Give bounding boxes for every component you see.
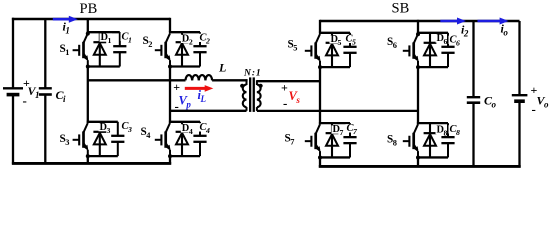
label Vp minus bbox=[175, 99, 179, 114]
capacitor C2 bbox=[193, 32, 210, 66]
wire PB top rail bbox=[12, 18, 170, 21]
wire cell S2 bottom bar bbox=[170, 65, 200, 67]
transistor S5 bbox=[288, 34, 321, 67]
node S8 emitter junction bbox=[416, 155, 420, 159]
wire S4 emitter to rail bbox=[169, 155, 171, 164]
label Vs plus bbox=[281, 81, 288, 95]
wire cell S1 top bar bbox=[87, 31, 120, 33]
wire cell S8 top bar bbox=[417, 122, 448, 124]
label SB bbox=[392, 0, 410, 16]
wire secondary return bbox=[257, 110, 418, 112]
label PB bbox=[80, 1, 98, 17]
wire cell S1 bottom bar bbox=[88, 65, 120, 67]
wire cell S7 bottom bar bbox=[320, 156, 350, 158]
wire Co top bbox=[472, 21, 474, 97]
label N:1 bbox=[243, 68, 262, 79]
wire Vo bottom bbox=[518, 101, 520, 167]
wire S2 collector stub bbox=[169, 18, 171, 32]
current arrow i2 bbox=[440, 18, 470, 39]
wire S3 emitter to rail bbox=[87, 155, 89, 163]
transistor S6 bbox=[387, 34, 419, 67]
svg-text:L: L bbox=[218, 61, 226, 75]
wire cell S8 bottom bar bbox=[418, 156, 448, 158]
diode D2 bbox=[176, 32, 194, 66]
capacitor C4 bbox=[193, 122, 210, 156]
wire cell S5 top bar bbox=[319, 32, 350, 34]
transformer primary winding bbox=[243, 79, 247, 111]
transformer core bbox=[249, 77, 255, 112]
transformer secondary dot bbox=[259, 84, 263, 88]
wire inductor to transformer bbox=[212, 79, 248, 81]
wire Co bottom bbox=[472, 103, 474, 167]
capacitor C8 bbox=[441, 123, 460, 157]
wire Ci bottom bbox=[44, 95, 46, 164]
wire primary phase A bbox=[88, 79, 186, 81]
svg-text:-: - bbox=[532, 102, 536, 117]
capacitor Ci bbox=[39, 88, 66, 104]
diode D1 bbox=[93, 32, 112, 66]
transistor S8 bbox=[387, 124, 419, 157]
diode D3 bbox=[93, 122, 111, 156]
wire SB top rail bbox=[320, 20, 520, 23]
wire Vo top bbox=[518, 21, 520, 95]
svg-text:N:1: N:1 bbox=[243, 68, 262, 79]
wire S5 collector stub bbox=[319, 20, 321, 33]
transistor S1 bbox=[60, 33, 89, 66]
label iL bbox=[198, 88, 207, 104]
diode D7 bbox=[326, 123, 344, 157]
wire S7 emitter to rail bbox=[319, 157, 321, 168]
wire SB leg B bbox=[417, 66, 419, 124]
capacitor C1 bbox=[113, 32, 132, 67]
diode D5 bbox=[326, 33, 342, 67]
transistor S7 bbox=[285, 124, 321, 157]
transistor S2 bbox=[143, 33, 171, 66]
transistor S3 bbox=[60, 123, 89, 156]
svg-text:+: + bbox=[281, 81, 288, 95]
wire cell S4 bottom bar bbox=[170, 155, 200, 157]
label Vs minus bbox=[283, 96, 287, 111]
capacitor C6 bbox=[441, 33, 460, 67]
label Vs bbox=[289, 89, 301, 105]
wire cell S3 bottom bar bbox=[88, 155, 118, 157]
node S4 emitter junction bbox=[168, 154, 172, 158]
capacitor Co bbox=[467, 94, 497, 110]
node S1 collector junction bbox=[86, 32, 90, 36]
wire cell S7 top bar bbox=[319, 122, 350, 124]
svg-text:-: - bbox=[283, 96, 287, 111]
wire cell S6 top bar bbox=[417, 32, 448, 34]
wire left source top bbox=[12, 18, 14, 88]
wire PB leg B bbox=[169, 65, 171, 123]
wire cell S3 top bar bbox=[87, 121, 118, 123]
inductor L bbox=[186, 61, 227, 81]
node S7 emitter junction bbox=[318, 155, 322, 159]
wire S1 collector stub bbox=[87, 19, 89, 34]
voltage source V1 bbox=[3, 76, 40, 108]
label Vp plus bbox=[173, 80, 180, 94]
voltage source Vo bbox=[512, 83, 549, 117]
current arrow iL bbox=[185, 85, 214, 92]
capacitor C3 bbox=[111, 121, 132, 156]
svg-text:+: + bbox=[173, 80, 180, 94]
transformer primary dot bbox=[240, 84, 244, 88]
wire left source bottom bbox=[12, 95, 14, 165]
node S5 emitter junction bbox=[318, 65, 322, 69]
wire cell S6 bottom bar bbox=[418, 66, 448, 68]
transistor S4 bbox=[141, 123, 171, 156]
wire primary return bbox=[170, 110, 247, 112]
wire Ci top bbox=[44, 19, 46, 88]
diode D8 bbox=[424, 123, 448, 157]
diode D6 bbox=[424, 33, 448, 67]
capacitor C7 bbox=[343, 123, 358, 157]
wire cell S4 top bar bbox=[169, 121, 200, 123]
current arrow io bbox=[478, 18, 509, 38]
diode D4 bbox=[176, 122, 194, 156]
wire cell S2 top bar bbox=[169, 31, 200, 33]
node S1 emitter junction bbox=[86, 65, 90, 69]
transformer secondary winding bbox=[257, 80, 261, 111]
node S3 emitter junction bbox=[86, 154, 90, 158]
wire PB leg A bbox=[87, 65, 89, 123]
current arrow i1 bbox=[53, 16, 78, 36]
wire S8 emitter to rail bbox=[417, 157, 419, 167]
label Vp bbox=[179, 94, 192, 110]
node S6 emitter junction bbox=[416, 65, 420, 69]
wire SB bottom rail bbox=[319, 165, 521, 168]
svg-text:PB: PB bbox=[80, 1, 98, 17]
svg-text:-: - bbox=[23, 93, 27, 108]
wire SB leg A bbox=[319, 66, 321, 124]
wire cell S5 bottom bar bbox=[320, 66, 350, 68]
wire secondary top bbox=[257, 80, 320, 82]
node S6 collector junction bbox=[416, 32, 420, 36]
capacitor C5 bbox=[343, 33, 356, 67]
wire PB bottom rail bbox=[12, 162, 171, 165]
node S2 emitter junction bbox=[168, 65, 172, 69]
svg-text:SB: SB bbox=[392, 0, 410, 16]
wire S6 collector stub bbox=[417, 20, 419, 34]
